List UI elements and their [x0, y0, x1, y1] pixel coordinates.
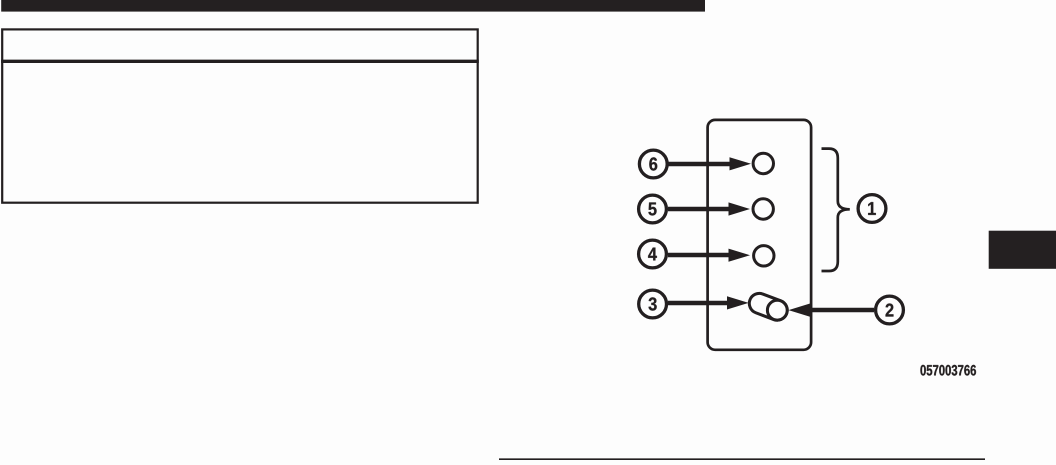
rotary knob face [767, 300, 787, 320]
button circle top [753, 153, 773, 173]
callout circle 6 [639, 150, 667, 178]
top section header bar [1, 0, 705, 12]
grouping brace [822, 149, 850, 271]
warning box frame [2, 29, 478, 202]
warning box header divider [1, 60, 479, 63]
button circle middle [753, 199, 773, 219]
callout arrow 3 [668, 296, 749, 309]
callout circle 2 [876, 296, 904, 324]
callout circle 4 [639, 240, 667, 268]
footnote rule [499, 458, 985, 460]
page edge thumb tab [989, 231, 1056, 269]
callout circle 3 [639, 290, 667, 318]
figure number 057003766 [920, 365, 925, 376]
rotary knob body [746, 291, 790, 324]
callout arrow 2 [789, 304, 875, 317]
button circle bottom [754, 246, 774, 266]
switch panel outline [708, 120, 812, 350]
callout arrow 4 [668, 249, 750, 262]
callout circle 5 [639, 195, 667, 223]
callout arrow 6 [668, 157, 751, 170]
callout circle 1 [858, 195, 886, 223]
callout arrow 5 [668, 202, 750, 215]
